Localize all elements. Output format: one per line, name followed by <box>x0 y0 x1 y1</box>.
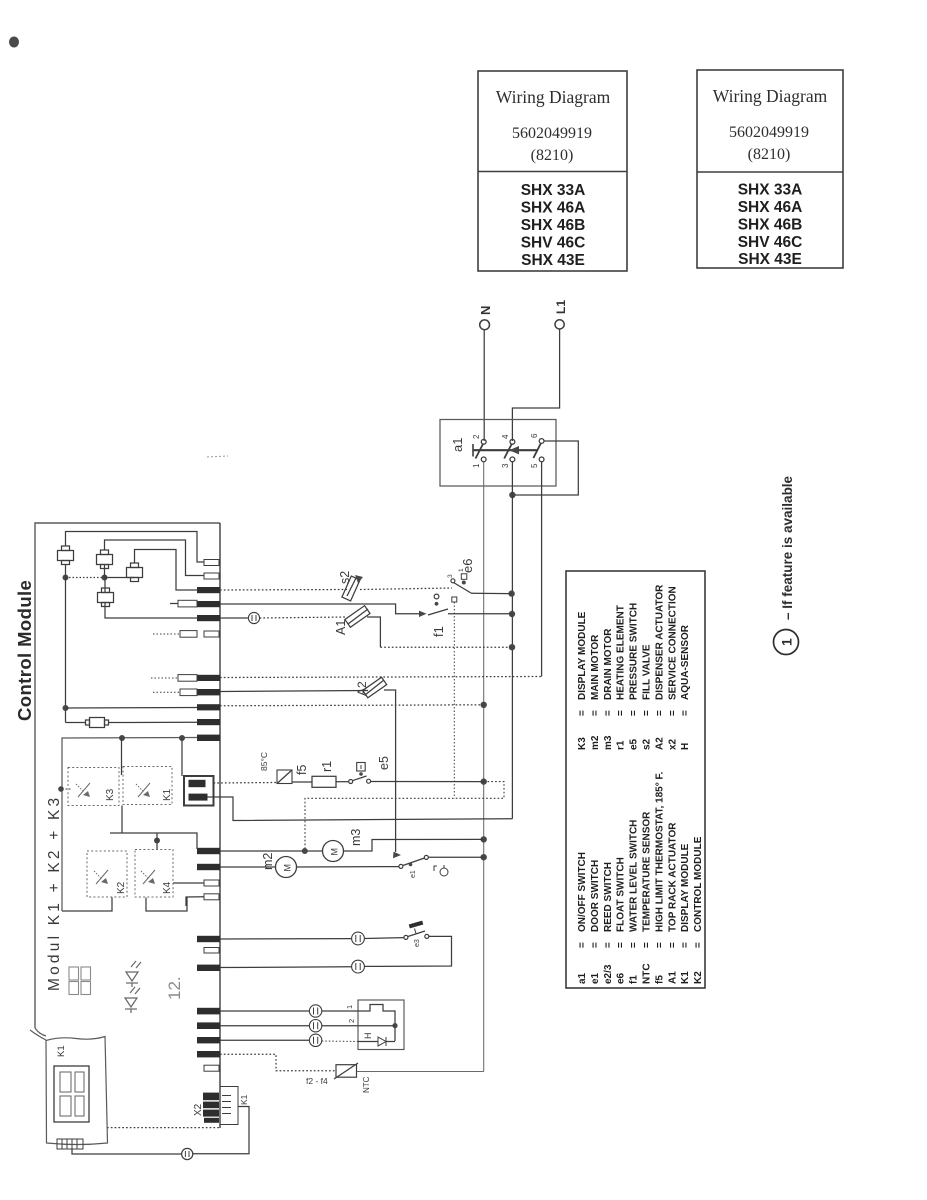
wire to service connector <box>181 738 183 776</box>
wire pin692 to dispenser actuator A2 <box>220 691 368 692</box>
LEGEND BOX <box>566 571 705 988</box>
svg-text:r1: r1 <box>320 761 334 772</box>
svg-text:=: = <box>577 942 588 948</box>
svg-text:CONTROL MODULE: CONTROL MODULE <box>693 836 704 932</box>
node junction 708 <box>63 705 69 711</box>
node junction 305,851 <box>302 848 308 854</box>
svg-text:K1: K1 <box>162 788 173 801</box>
module pin black 722 <box>197 719 220 725</box>
svg-text:HIGH LIMIT THERMOSTAT, 185° F.: HIGH LIMIT THERMOSTAT, 185° F. <box>654 771 665 932</box>
svg-text:A1: A1 <box>334 620 348 635</box>
wire junction to K4 <box>156 833 158 850</box>
svg-text:DISPLAY MODULE: DISPLAY MODULE <box>577 611 588 700</box>
svg-text:a1: a1 <box>450 438 465 452</box>
wire dotted into K3 <box>62 788 72 790</box>
junction below a1 <box>509 492 515 498</box>
svg-text:=: = <box>693 942 704 948</box>
wire f5 to r1 <box>292 781 312 783</box>
svg-text:X2: X2 <box>193 1103 204 1116</box>
wire pin1011 to plug1 <box>220 1010 310 1012</box>
heating element r1 <box>312 761 336 787</box>
wire pin707 to junction 705 <box>220 705 484 706</box>
svg-text:=: = <box>590 710 601 716</box>
svg-text:SHX 33A: SHX 33A <box>738 182 803 199</box>
wire pin1026 to plug2 <box>220 1025 310 1027</box>
wire thermostat net from service bar1 <box>214 782 278 785</box>
wire m2 to door switch e1 <box>297 866 400 868</box>
svg-text:e1: e1 <box>410 870 417 878</box>
svg-text:SHV 46C: SHV 46C <box>521 235 586 252</box>
wire vertical from a1 pole 5 <box>541 462 543 677</box>
connector plug e2/3 reed 2 <box>97 550 113 569</box>
svg-text:TEMPERATURE SENSOR: TEMPERATURE SENSOR <box>642 811 653 932</box>
svg-text:FILL VALVE: FILL VALVE <box>642 644 653 700</box>
a1 pole 3-4 <box>501 434 515 468</box>
svg-text:A2: A2 <box>654 737 665 750</box>
svg-text:Wiring Diagram: Wiring Diagram <box>496 87 611 107</box>
svg-text:=: = <box>667 710 678 716</box>
svg-text:2: 2 <box>472 434 481 439</box>
svg-text:f5: f5 <box>654 975 665 984</box>
drain motor m3 <box>323 829 364 862</box>
wire connector to A1 <box>260 617 347 618</box>
connector plug e2/3 reed 4 <box>98 588 114 607</box>
svg-text:5: 5 <box>530 463 539 468</box>
plug connector 1026 <box>309 1019 321 1031</box>
relay K3 <box>68 768 119 806</box>
service connector X2 pins <box>193 1093 219 1123</box>
svg-text:=: = <box>629 942 640 948</box>
wire X2 shell to ground loop <box>193 1107 249 1154</box>
svg-text:e1: e1 <box>590 972 601 984</box>
svg-text:SERVICE CONNECTION: SERVICE CONNECTION <box>667 586 678 700</box>
svg-text:DRAIN MOTOR: DRAIN MOTOR <box>603 628 614 700</box>
svg-text:3: 3 <box>447 574 454 578</box>
wire main vertical from a1 pole 3 <box>511 462 513 819</box>
resistor inside module r-678 <box>151 675 197 682</box>
svg-text:K2: K2 <box>693 971 704 984</box>
svg-text:=: = <box>642 710 653 716</box>
svg-text:f5: f5 <box>295 765 309 775</box>
node junction main motor net <box>481 854 487 860</box>
wire pin1040 to plug3 <box>220 1039 310 1041</box>
module pin black 1011 <box>197 1008 220 1015</box>
svg-text:SHX 46B: SHX 46B <box>738 217 803 234</box>
dispenser actuator A2 <box>355 677 387 698</box>
svg-text:M: M <box>330 848 340 856</box>
wire vertical from a1 pole 1 (N line) <box>483 462 485 1072</box>
wire to plug x-722 <box>66 722 86 724</box>
svg-text:e2/3: e2/3 <box>603 964 614 984</box>
svg-text:SHX 43E: SHX 43E <box>521 252 585 269</box>
svg-text:e3: e3 <box>414 939 421 947</box>
module pin white 1068 <box>204 1065 219 1071</box>
wire pin618 to top rack actuator A1 <box>220 617 249 619</box>
temperature sensor NTC <box>306 1063 371 1093</box>
svg-text:=: = <box>667 942 678 948</box>
svg-text:ON/OFF SWITCH: ON/OFF SWITCH <box>577 852 588 932</box>
svg-text:e5: e5 <box>377 756 391 770</box>
resistor inside module r-634 <box>153 631 197 638</box>
svg-text:SHX 33A: SHX 33A <box>521 182 586 199</box>
svg-text:1: 1 <box>472 463 481 468</box>
wire plug x-722 to pin 722 <box>109 721 198 723</box>
terminal N <box>478 306 493 330</box>
a1 pole 5-6 <box>530 433 544 468</box>
wire pin678 to a1 pole5 <box>220 677 542 678</box>
svg-text:1: 1 <box>458 568 465 572</box>
svg-text:s2: s2 <box>338 571 352 584</box>
wire reed1 to pin 560 <box>66 532 205 563</box>
wire junction2 to reed3 <box>105 577 135 579</box>
module pin black 737 <box>197 735 220 741</box>
svg-text:K4: K4 <box>162 881 173 894</box>
svg-text:=: = <box>590 942 601 948</box>
svg-text:f1: f1 <box>431 626 446 637</box>
svg-text:– If feature is available: – If feature is available <box>780 475 795 620</box>
module pin black 590 <box>197 587 220 593</box>
module pin black 851 <box>197 848 220 854</box>
svg-text:NTC: NTC <box>362 1076 371 1093</box>
connector plug x-722 <box>86 718 109 728</box>
display segments 88 on module <box>69 967 91 995</box>
wire m3 to junction 839 <box>344 839 484 851</box>
svg-text:=: = <box>642 942 653 948</box>
module pin white 634 <box>204 631 219 637</box>
control module K2 box <box>14 523 220 1128</box>
svg-text:Modul K1 + K2 + K3: Modul K1 + K2 + K3 <box>46 795 63 991</box>
wire relays feed row2 <box>110 833 197 849</box>
svg-text:=: = <box>603 710 614 716</box>
svg-text:Control Module: Control Module <box>14 580 35 721</box>
wire f1 to junction <box>448 613 512 615</box>
relay K2 <box>87 851 127 897</box>
LED diode 1 <box>126 961 141 987</box>
relay K1 <box>123 767 173 805</box>
svg-text:85°C: 85°C <box>259 752 269 771</box>
wire relay K1 to white pin 897 <box>186 897 204 906</box>
svg-text:K1: K1 <box>680 971 691 984</box>
svg-text:SHV 46C: SHV 46C <box>738 234 803 251</box>
display module inner display <box>54 1066 89 1122</box>
relay K4 <box>135 850 173 898</box>
module pin white 560 <box>204 560 219 566</box>
NOTE: if-feature-available <box>774 475 799 654</box>
wire e6 to junction <box>471 592 512 594</box>
svg-text:H: H <box>680 743 691 750</box>
svg-text:=: = <box>680 710 691 716</box>
wire r1 to e5 <box>336 781 349 783</box>
door switch e1 <box>399 855 448 878</box>
module pin black 968 <box>197 965 220 971</box>
wire junction2 to reed4 <box>104 578 106 593</box>
svg-text:1: 1 <box>345 1005 354 1009</box>
svg-text:6: 6 <box>530 433 539 438</box>
wire display to module pin dotted <box>107 1127 220 1129</box>
wire pin604 to f1 <box>220 604 420 614</box>
svg-text:=: = <box>603 942 614 948</box>
node junction 60,789 <box>58 786 64 792</box>
wire s2 to e6 <box>360 588 452 590</box>
svg-text:SHX 46A: SHX 46A <box>521 200 586 217</box>
svg-text:H: H <box>363 1033 373 1040</box>
arrow at f1 feed <box>419 611 427 617</box>
wire pin1054 to NTC <box>220 1054 336 1070</box>
node junction s2/e6 net <box>508 590 514 596</box>
svg-text:K1: K1 <box>239 1094 249 1105</box>
module pin white 897 <box>204 894 219 900</box>
node junction A1 net <box>509 644 515 650</box>
wire lamp1 to switch e4 <box>364 937 404 940</box>
terminal L1 <box>554 300 568 329</box>
wire bridge pole6 to pole3 net <box>515 441 578 495</box>
resistor inside module r-692 <box>153 689 197 696</box>
wire service bar2 down-right <box>208 797 513 821</box>
module pin white 950 <box>204 948 219 954</box>
wire e5 to junction 781 <box>371 781 484 783</box>
node junction 122,738 <box>119 735 125 741</box>
module pin black 604 <box>197 601 220 607</box>
wire K3 bottom down <box>121 806 123 834</box>
node junction dispenser net <box>481 702 487 708</box>
svg-text:NTC: NTC <box>642 963 653 984</box>
module pin black 1040 <box>197 1037 220 1043</box>
svg-text:DOOR SWITCH: DOOR SWITCH <box>590 860 601 932</box>
a1 mechanical link bar with arrow <box>473 444 538 457</box>
display module connector <box>57 1139 83 1149</box>
svg-text:M: M <box>283 864 293 872</box>
resistor inside module r-603 <box>170 600 197 607</box>
svg-text:=: = <box>629 710 640 716</box>
svg-text:K3: K3 <box>577 737 588 750</box>
svg-text:f2 - f4: f2 - f4 <box>306 1076 328 1086</box>
wire reed2 to pin 574 <box>105 540 205 576</box>
svg-text:5602049919: 5602049919 <box>512 125 592 142</box>
LED diode 2 <box>125 987 140 1013</box>
plug connector 1040 <box>309 1034 321 1046</box>
svg-text:=: = <box>616 942 627 948</box>
wire heater return path <box>305 782 504 851</box>
lamp connector 1 <box>352 932 365 945</box>
svg-text:m3: m3 <box>603 735 614 750</box>
svg-text:HEATING ELEMENT: HEATING ELEMENT <box>616 605 627 700</box>
wire N to a1 pin 2 <box>483 330 485 441</box>
wire plug1 to H box <box>322 1010 358 1012</box>
module pin black 678 <box>197 675 220 681</box>
svg-text:Wiring Diagram: Wiring Diagram <box>713 86 828 106</box>
wire pin968 to lamp2 <box>220 966 352 969</box>
connector symbol on A1 wire <box>248 612 259 623</box>
module pin black 692 <box>197 689 220 695</box>
aqua sensor H box <box>358 1000 404 1050</box>
wire pin851 to drain motor m3 <box>220 850 323 852</box>
module pin black 1026 <box>197 1022 220 1029</box>
svg-text:A2: A2 <box>355 681 369 696</box>
wire e4 loop to lamp2 <box>364 936 451 966</box>
wire long vertical reed junction1 down <box>65 578 67 723</box>
wire reed4 bottom to pin 618 <box>105 603 197 619</box>
fill valve s2 <box>338 571 363 601</box>
wire reed2 bottom to junction2 <box>104 565 106 578</box>
ink speck top-left <box>9 37 19 48</box>
svg-text:PRESSURE SWITCH: PRESSURE SWITCH <box>629 603 640 700</box>
svg-text:K1: K1 <box>56 1045 67 1057</box>
inner box Modul K1+K2+K3 <box>46 738 197 992</box>
lamp connector 2 <box>352 960 365 973</box>
svg-text:SHX 43E: SHX 43E <box>738 251 802 268</box>
module pin white 883 <box>204 880 219 886</box>
svg-text:5602049919: 5602049919 <box>729 124 809 141</box>
node reed junction 2 <box>102 575 108 581</box>
node junction heater net <box>481 778 487 784</box>
wire relay K1 to white pin 883 <box>173 882 204 884</box>
svg-text:FLOAT SWITCH: FLOAT SWITCH <box>616 857 627 932</box>
svg-text:4: 4 <box>501 434 510 439</box>
wire reed3 to pin 590 <box>135 550 198 591</box>
water level switch f1 <box>428 594 457 798</box>
node junction 157,840 <box>154 838 160 844</box>
wire pin939 to lamp1 <box>220 938 352 940</box>
on-off switch a1 box <box>440 420 556 487</box>
svg-text:f1: f1 <box>629 975 640 984</box>
faint mark under box1 <box>207 456 228 457</box>
top rack actuator A1 <box>334 606 370 635</box>
svg-text:=: = <box>654 942 665 948</box>
svg-text:=: = <box>654 710 665 716</box>
svg-text:MAIN MOTOR: MAIN MOTOR <box>590 634 601 700</box>
svg-text:m3: m3 <box>349 829 363 846</box>
display module K1 box <box>30 1030 108 1145</box>
svg-text:L1: L1 <box>554 300 568 314</box>
switch e4 top rack <box>404 921 429 947</box>
svg-text:x2: x2 <box>667 738 678 750</box>
wire L1 to a1 pin 4 <box>512 329 559 441</box>
svg-text:SHX 46B: SHX 46B <box>521 217 586 234</box>
svg-text:=: = <box>680 942 691 948</box>
svg-text:REED SWITCH: REED SWITCH <box>603 862 614 932</box>
svg-text:TOP RACK ACTUATOR: TOP RACK ACTUATOR <box>667 822 678 932</box>
svg-text:AQUA-SENSOR: AQUA-SENSOR <box>680 624 691 700</box>
module pin black 867 <box>197 864 220 870</box>
module pin black 1054 <box>197 1051 220 1057</box>
wire pin590 to fill valve s2 <box>220 589 347 592</box>
svg-text:e5: e5 <box>629 738 640 750</box>
svg-text:=: = <box>577 710 588 716</box>
wire e1 to junction 857 <box>428 856 483 858</box>
svg-text:a1: a1 <box>577 972 588 984</box>
svg-text:DISPLAY MODULE: DISPLAY MODULE <box>680 843 691 932</box>
wire to relay K3/K1 coils <box>121 738 123 775</box>
svg-text:K2: K2 <box>116 881 127 894</box>
module pin black 707 <box>197 704 220 710</box>
service connector X2 shell <box>220 1087 249 1125</box>
wire plug2 to H box <box>322 1025 358 1027</box>
module pin white 574 <box>204 573 219 579</box>
svg-text:N: N <box>478 306 493 315</box>
wire dotted junction1-junction2 <box>66 577 105 579</box>
node reed junction 1 <box>63 575 69 581</box>
terminal circle on return wire <box>182 1148 193 1159</box>
HEADER-BOXES <box>478 71 627 271</box>
svg-text:2: 2 <box>347 1019 356 1023</box>
wire A1 to junction 647 <box>367 617 380 647</box>
wire A2 down to door switch blade <box>384 690 396 852</box>
svg-text:DISPENSER ACTUATOR: DISPENSER ACTUATOR <box>654 584 665 700</box>
plug connector 1011 <box>309 1005 321 1017</box>
wire plug3 to H box dotted <box>322 1040 358 1043</box>
svg-text:s2: s2 <box>642 738 653 750</box>
sub-box under relays row1 <box>62 898 112 912</box>
wire pin867 to main motor m2 <box>220 866 276 868</box>
sub-box under relay K4 <box>146 898 187 912</box>
svg-text:3: 3 <box>501 463 510 468</box>
node junction 182,738 <box>179 735 185 741</box>
svg-text:SHX 46A: SHX 46A <box>738 199 803 216</box>
connector plug e2/3 reed 1 <box>58 546 74 565</box>
svg-text:m2: m2 <box>261 853 275 870</box>
main motor m2 <box>261 853 297 878</box>
svg-text:K3: K3 <box>105 788 116 801</box>
svg-text:(8210): (8210) <box>531 147 574 164</box>
node junction drain motor net <box>481 836 487 842</box>
float switch e6 <box>447 559 475 593</box>
svg-text:WATER LEVEL SWITCH: WATER LEVEL SWITCH <box>629 820 640 932</box>
svg-text:12.: 12. <box>165 976 184 1000</box>
svg-text:1: 1 <box>779 638 795 646</box>
svg-text:(8210): (8210) <box>748 146 791 163</box>
wire return to display connector <box>72 1149 182 1154</box>
service connector X1 block <box>184 776 214 806</box>
wire N line bottom to NTC <box>356 1071 484 1073</box>
high limit thermostat f5 <box>259 752 309 784</box>
svg-text:=: = <box>616 710 627 716</box>
wire reed1 bottom to junction <box>65 565 67 578</box>
node junction f1 net <box>509 611 515 617</box>
module pin black 939 <box>197 936 220 942</box>
module pin black 618 <box>197 615 220 621</box>
svg-text:r1: r1 <box>616 740 627 750</box>
svg-text:e6: e6 <box>616 972 627 984</box>
svg-text:A1: A1 <box>667 971 678 984</box>
connector plug e2/3 reed 3 <box>127 563 143 582</box>
wire junction 708 to pin 707 <box>66 707 198 710</box>
pressure switch e5 <box>349 756 391 783</box>
a1 pole 1-2 <box>472 434 486 468</box>
svg-text:m2: m2 <box>590 735 601 750</box>
